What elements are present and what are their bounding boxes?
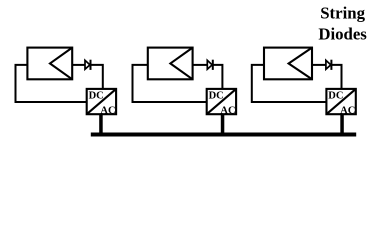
wire D1 cathode to inverter U1 input [91,65,103,89]
inverter U1 DC/AC converter [87,89,116,114]
PV module PV1 [27,48,72,80]
wire D2 cathode to inverter U2 input [213,65,223,89]
wire U3 output to bus [340,114,344,136]
PV module PV2 [148,48,193,80]
inverter U3 DC/AC converter [326,89,355,114]
wire PV3 return to inverter U3 [252,65,327,102]
PV module PV3 [264,48,312,80]
wire U1 output to bus [99,114,103,136]
wire D3 cathode to inverter U3 input [331,65,341,89]
svg-text:AC: AC [100,105,115,116]
inverter U2 DC/AC converter [207,89,236,114]
diode D3 [326,60,332,70]
diode D1 [85,60,91,70]
svg-text:DC: DC [328,90,343,101]
svg-text:Diodes: Diodes [318,25,367,44]
wire PV1 positive to diode D1 [72,64,85,66]
wire PV1 return to inverter U1 [16,65,87,102]
svg-text:DC: DC [209,90,224,101]
wire U2 output to bus [221,114,225,136]
wire PV2 return to inverter U2 [133,65,207,102]
svg-text:DC: DC [89,90,104,101]
wire PV2 positive to diode D2 [193,64,208,66]
title: String Diodes label [318,4,367,44]
wire PV3 positive to diode D3 [312,64,326,66]
AC bus bar [91,133,356,137]
diode D2 [207,60,213,70]
svg-text:String: String [320,4,365,23]
